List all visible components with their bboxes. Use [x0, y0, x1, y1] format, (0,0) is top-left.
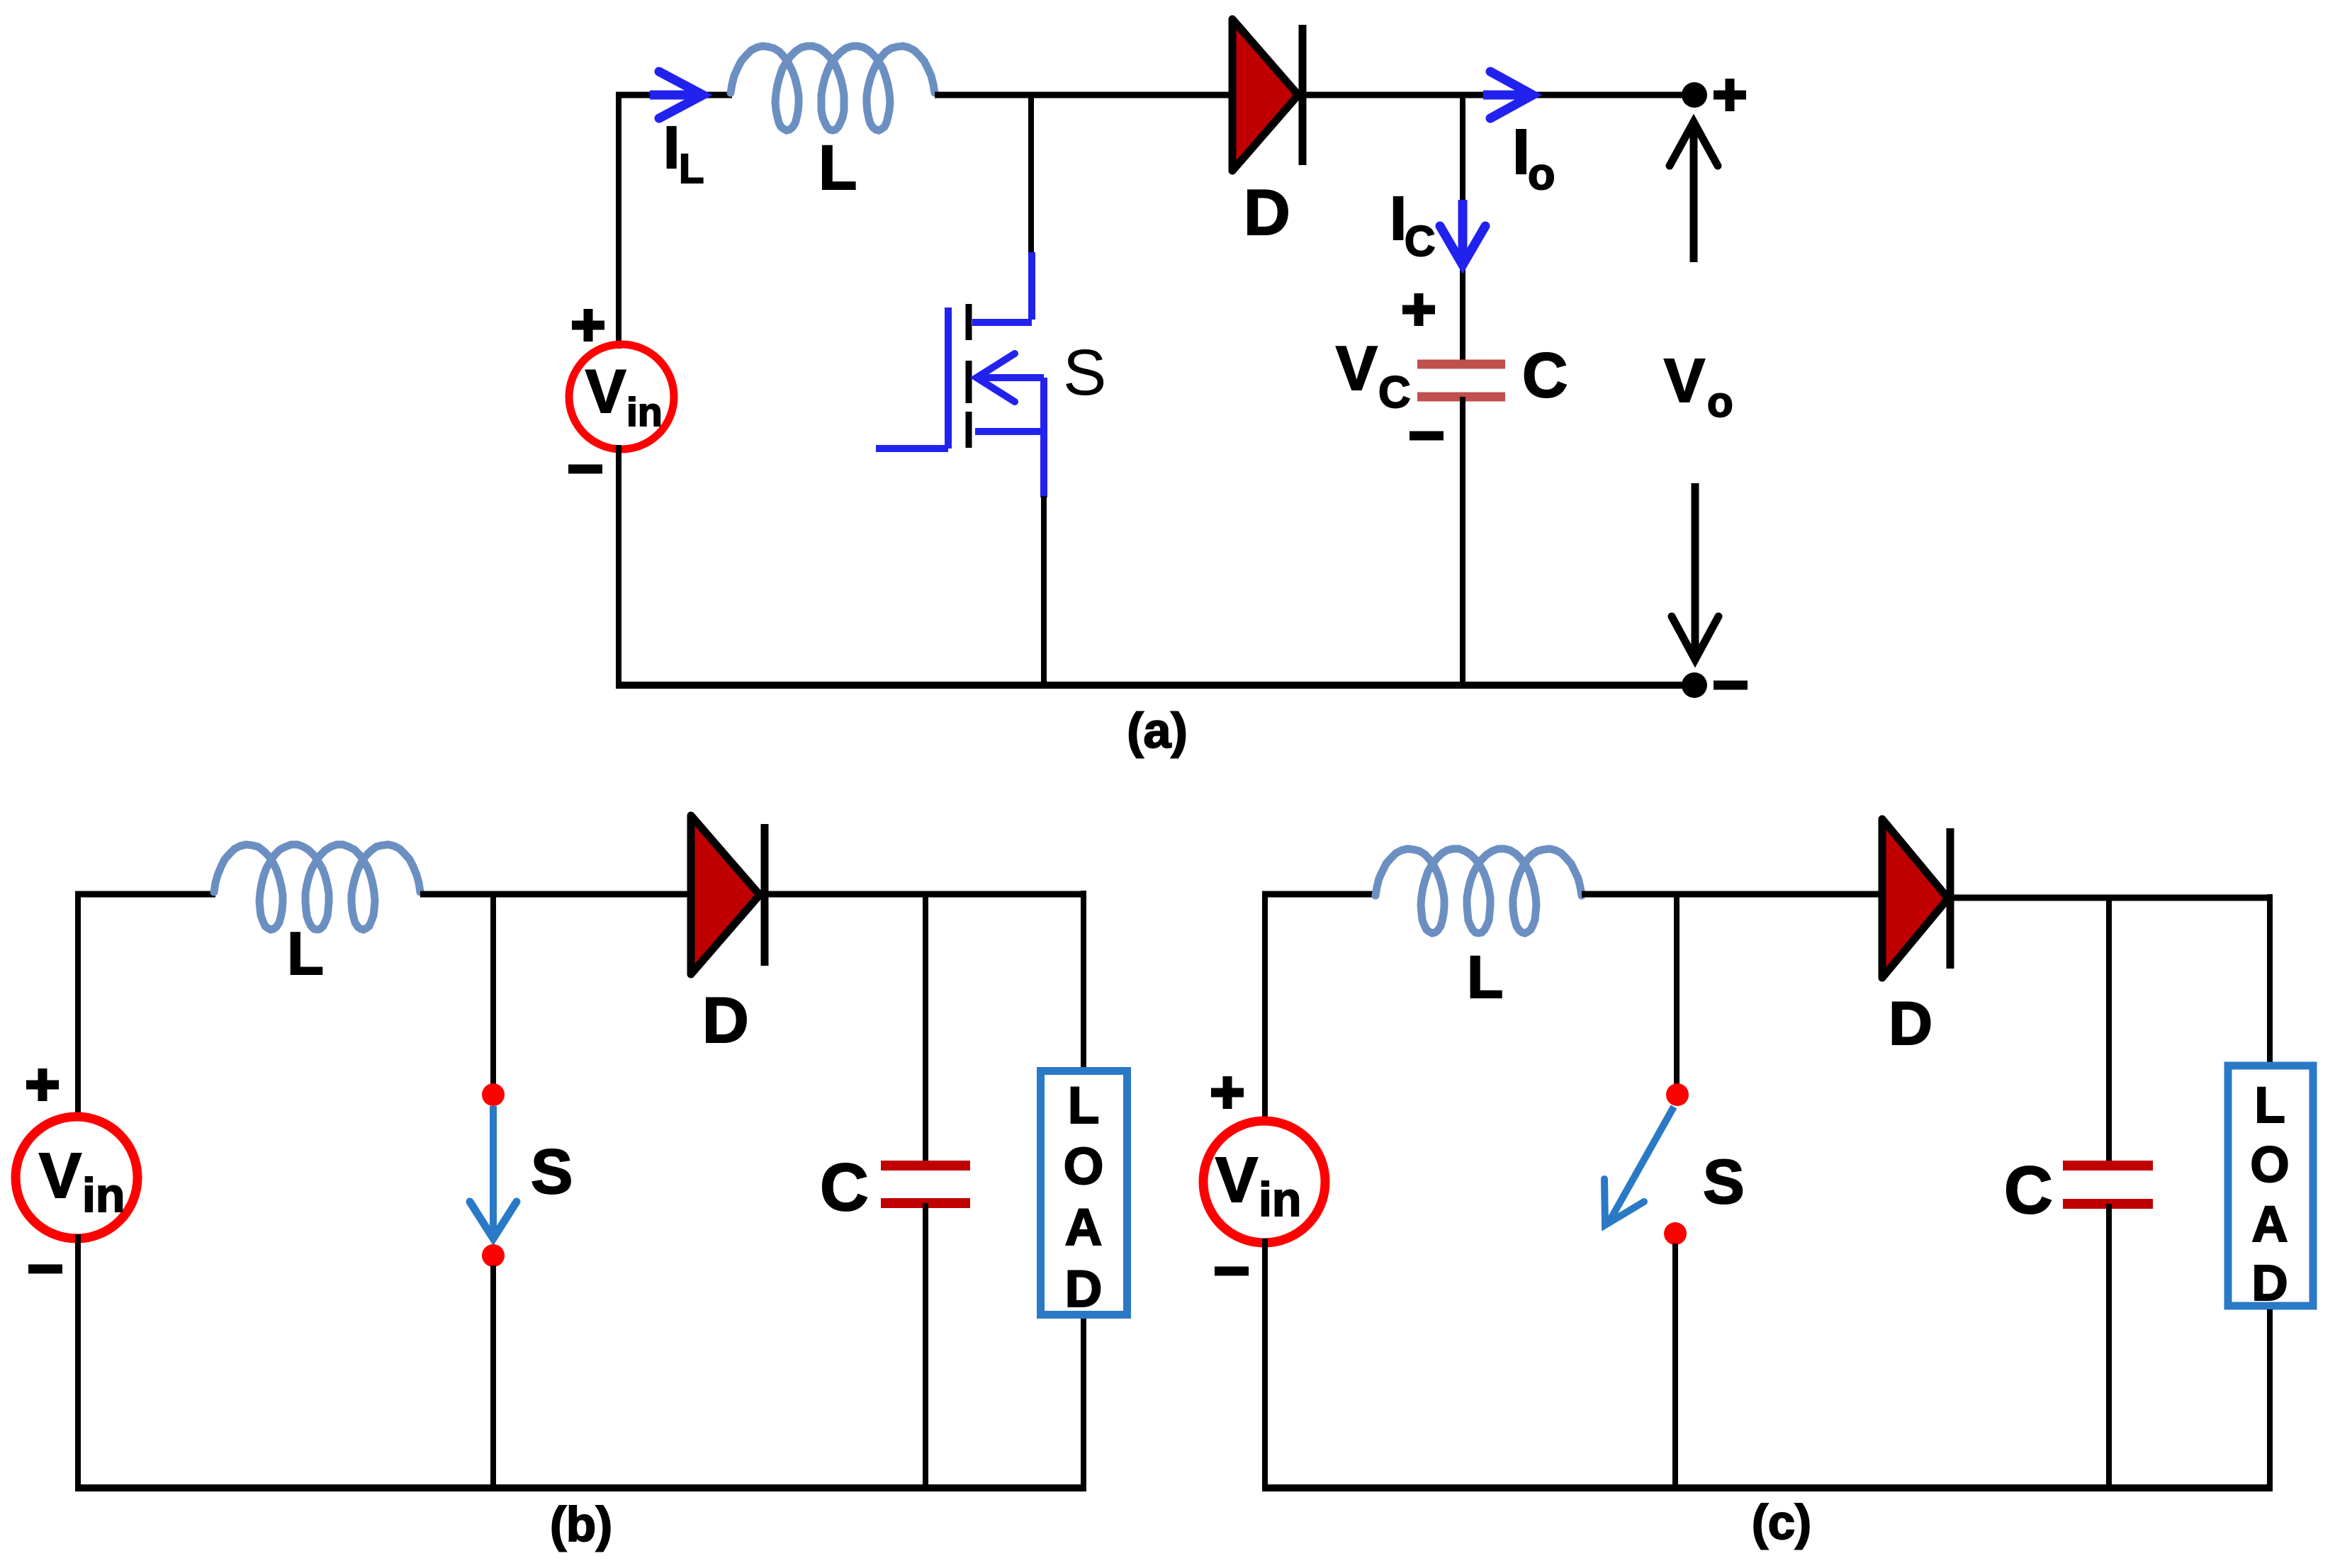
wire (c) capacitor branch upper — [2106, 898, 2112, 1165]
diode D (b) — [691, 816, 760, 974]
wire (c) switch vertical lower — [1672, 1243, 1678, 1488]
svg-text:L: L — [679, 146, 704, 192]
current arrow IL — [650, 91, 700, 100]
wire (a) drain vertical black — [1028, 95, 1034, 254]
inductor L (b) — [214, 845, 420, 930]
svg-text:S: S — [531, 1136, 573, 1207]
current arrow IC — [1458, 200, 1468, 259]
capacitor C (a) — [1417, 360, 1505, 369]
diode D (a) — [1232, 19, 1298, 171]
voltage source Vin (b) — [16, 1117, 137, 1239]
voltage source Vin (c) — [1203, 1121, 1325, 1243]
svg-text:O: O — [2250, 1137, 2289, 1193]
diode D (c) — [1882, 819, 1948, 978]
wire (b) top middle segment — [420, 891, 692, 898]
svg-text:in: in — [82, 1168, 125, 1222]
voltage arrow Vo down — [1692, 483, 1699, 653]
label LOAD (c) — [2250, 1078, 2289, 1312]
svg-text:D: D — [1889, 990, 1932, 1058]
wire (c) bottom — [1262, 1484, 2273, 1491]
load box (b) — [1041, 1071, 1127, 1315]
node output + terminal — [1682, 82, 1707, 108]
svg-text:O: O — [1064, 1138, 1104, 1195]
label − of Vin (a) — [568, 465, 602, 474]
wire (b) top right segment — [768, 891, 1084, 898]
label LOAD (b) — [1064, 1077, 1104, 1318]
voltage source Vin (a) — [569, 344, 674, 449]
svg-text:D: D — [1065, 1260, 1103, 1318]
wire (a) bottom — [616, 682, 1694, 689]
transistor S (MOSFET) — [876, 252, 1044, 497]
wire (b) capacitor branch lower — [923, 1203, 928, 1488]
wire (b) left vertical lower — [75, 1234, 81, 1488]
wire (b) left vertical upper — [75, 891, 81, 1121]
svg-text:C: C — [2004, 1153, 2053, 1228]
load box (c) — [2228, 1066, 2313, 1306]
wire (a) capacitor branch lower — [1460, 397, 1465, 685]
wire (b) switch vertical upper — [490, 894, 496, 1091]
svg-text:o: o — [1528, 150, 1555, 199]
svg-text:L: L — [1467, 944, 1503, 1010]
svg-text:D: D — [1244, 177, 1290, 249]
wire (b) switch vertical lower — [490, 1265, 496, 1488]
wire (a) top middle segment — [935, 92, 1230, 98]
svg-text:L: L — [1068, 1077, 1100, 1134]
label + of capacitor (a) — [1402, 293, 1435, 326]
svg-text:C: C — [1405, 218, 1435, 265]
svg-text:V: V — [39, 1141, 81, 1212]
wire (b) top left segment — [75, 891, 215, 898]
label − of Vin (b) — [28, 1265, 62, 1274]
svg-text:C: C — [1522, 339, 1568, 410]
svg-text:V: V — [1336, 333, 1378, 403]
svg-text:V: V — [1215, 1145, 1258, 1216]
wire (c) load bottom lead — [2267, 1309, 2273, 1488]
wire (a) top left segment — [616, 92, 732, 98]
label + of Vin (c) — [1211, 1076, 1244, 1109]
wire (c) left vertical upper — [1262, 891, 1268, 1125]
label − of capacitor (a) — [1410, 432, 1444, 441]
wire (b) bottom — [75, 1484, 1086, 1491]
label + of Vin (b) — [26, 1068, 59, 1101]
svg-text:V: V — [585, 358, 626, 426]
capacitor C (c) — [2063, 1161, 2153, 1171]
svg-text:L: L — [2254, 1078, 2285, 1134]
wire (a) left vertical lower — [616, 445, 621, 685]
wire (a) top right segment — [1306, 92, 1694, 98]
switch S (c) open: node dots and arrow — [1666, 1083, 1689, 1106]
svg-text:in: in — [626, 390, 663, 435]
wire (c) switch vertical upper — [1674, 894, 1679, 1085]
svg-text:in: in — [1259, 1173, 1301, 1226]
switch S (b) closed: node dots and arrow — [482, 1083, 505, 1106]
svg-text:A: A — [1065, 1199, 1103, 1256]
svg-text:(a): (a) — [1127, 703, 1188, 758]
svg-text:L: L — [287, 920, 324, 988]
label − at output node — [1714, 681, 1748, 690]
svg-text:D: D — [702, 985, 749, 1056]
current arrow Io — [1483, 91, 1529, 100]
wire (c) top middle segment — [1582, 891, 1880, 898]
svg-text:(c): (c) — [1752, 1495, 1811, 1550]
svg-text:(b): (b) — [550, 1497, 612, 1552]
svg-text:A: A — [2251, 1197, 2288, 1253]
wire (b) load bottom lead — [1081, 1319, 1086, 1488]
wire (c) left vertical lower — [1262, 1239, 1268, 1488]
wire (a) source vertical black — [1041, 496, 1047, 685]
inductor L (c) — [1375, 849, 1582, 933]
wire (c) top right segment — [1953, 895, 2270, 901]
wire (b) capacitor branch upper — [923, 894, 928, 1165]
svg-text:D: D — [2251, 1256, 2288, 1312]
label + at output node — [1714, 79, 1746, 111]
inductor L (a) — [731, 46, 935, 130]
svg-text:S: S — [1063, 337, 1106, 409]
svg-text:C: C — [820, 1150, 869, 1225]
label + of Vin (a) — [572, 309, 604, 342]
wire (a) left vertical upper — [616, 92, 621, 349]
wire (c) capacitor branch lower — [2106, 1204, 2112, 1488]
label − of Vin (c) — [1215, 1267, 1249, 1276]
svg-text:I: I — [663, 114, 680, 181]
node output − terminal — [1682, 672, 1707, 698]
voltage arrow Vo up — [1690, 128, 1698, 262]
capacitor C (b) — [881, 1161, 970, 1171]
svg-text:o: o — [1707, 378, 1733, 426]
svg-text:L: L — [818, 132, 857, 203]
wire (c) top left segment — [1262, 891, 1377, 898]
wire (a) capacitor branch upper — [1460, 95, 1465, 360]
svg-text:V: V — [1664, 346, 1705, 415]
svg-text:C: C — [1378, 368, 1411, 417]
svg-text:S: S — [1703, 1146, 1745, 1217]
